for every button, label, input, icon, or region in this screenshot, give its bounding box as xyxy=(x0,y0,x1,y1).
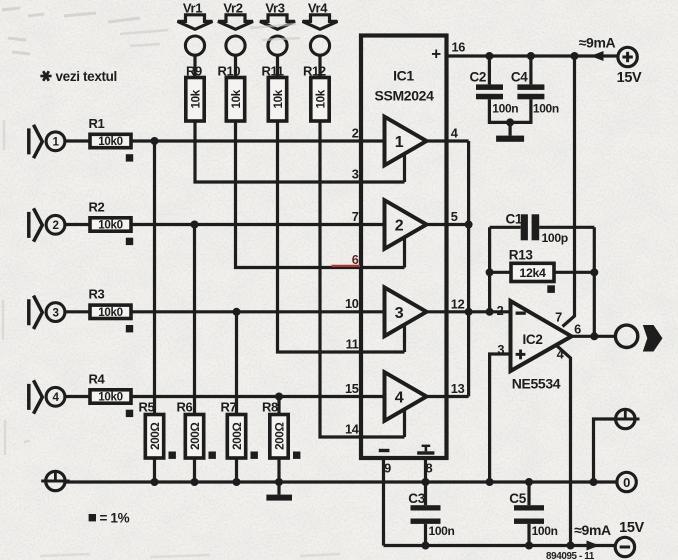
wire R6 to ground bus xyxy=(193,458,196,482)
svg-text:C3: C3 xyxy=(408,491,425,506)
wire Vr1 to R9 xyxy=(193,55,196,77)
input arrow 4 xyxy=(29,380,43,413)
svg-text:100n: 100n xyxy=(492,101,518,115)
wire input 3 to R3 xyxy=(65,310,90,313)
resistor R11 xyxy=(268,78,286,122)
wire R13 right xyxy=(554,271,594,274)
wire node1 to R5 xyxy=(153,141,156,415)
IC1 amp 1 control stub xyxy=(403,154,406,183)
resistor R13 xyxy=(511,263,554,281)
svg-text:7: 7 xyxy=(555,310,562,325)
wire node3 to R7 xyxy=(235,312,238,415)
resistor R9 xyxy=(186,78,204,122)
junction C2 rail xyxy=(485,52,493,60)
wire C1 left xyxy=(490,226,521,229)
svg-text:3: 3 xyxy=(52,306,59,319)
1% mark R5 xyxy=(169,452,176,459)
wire to ground C2C4 xyxy=(509,122,512,135)
1% mark R8 xyxy=(293,452,300,459)
wire C1 right xyxy=(539,226,594,229)
svg-text:SSM2024: SSM2024 xyxy=(374,87,434,103)
junction R5 ground xyxy=(151,478,159,486)
svg-text:100n: 100n xyxy=(532,524,558,538)
wire R5 to ground bus xyxy=(153,458,156,482)
svg-text:R3: R3 xyxy=(89,287,105,302)
svg-text:C5: C5 xyxy=(509,491,526,506)
wire Vr2 to R10 xyxy=(234,55,237,77)
svg-text:15: 15 xyxy=(345,381,359,396)
svg-text:Vr4: Vr4 xyxy=(308,0,328,15)
ground symbol C2C4 xyxy=(496,136,524,142)
junction R8 ground stub xyxy=(277,482,280,495)
junction IC2 supply rail xyxy=(571,52,579,60)
svg-text:1: 1 xyxy=(52,136,59,149)
svg-text:15V: 15V xyxy=(617,70,642,86)
IC1 internal minus xyxy=(379,449,390,452)
wire C3 bottom xyxy=(424,524,427,546)
positive supply terminal xyxy=(618,47,637,66)
wire C3 top xyxy=(424,482,427,505)
capacitor C1 xyxy=(521,214,539,240)
svg-text:C1: C1 xyxy=(506,211,523,226)
wire IC2 output xyxy=(572,335,616,338)
svg-text:Vr2: Vr2 xyxy=(223,0,242,15)
svg-text:2: 2 xyxy=(352,125,359,140)
svg-text:R1: R1 xyxy=(89,116,105,131)
svg-text:vezi textul: vezi textul xyxy=(56,69,117,84)
svg-text:10k0: 10k0 xyxy=(98,219,122,232)
1% mark R6 xyxy=(209,452,216,459)
svg-text:12: 12 xyxy=(451,296,465,311)
svg-text:13: 13 xyxy=(451,381,465,396)
svg-text:16: 16 xyxy=(452,40,466,55)
junction feedback pin2 xyxy=(486,308,494,316)
resistor R1 xyxy=(90,134,131,147)
junction R7 ground xyxy=(233,478,241,486)
svg-text:1: 1 xyxy=(395,134,404,151)
wire bus to IC2 pin2 xyxy=(469,310,511,313)
wire R11 to pin11 xyxy=(278,121,405,352)
svg-text:R13: R13 xyxy=(509,248,534,263)
junction input 2 xyxy=(191,221,199,229)
svg-text:≈9mA: ≈9mA xyxy=(579,35,616,51)
1% mark R3 xyxy=(126,325,133,332)
svg-text:4: 4 xyxy=(395,390,404,407)
svg-text:5: 5 xyxy=(451,209,458,224)
wire ground bus xyxy=(65,480,617,483)
wire IC2 pin4 negative xyxy=(557,346,571,546)
svg-text:R7: R7 xyxy=(221,400,237,415)
wire pin8 to ground bus xyxy=(424,458,427,482)
svg-text:100n: 100n xyxy=(429,524,455,538)
1% mark R13 xyxy=(547,285,555,293)
svg-text:2: 2 xyxy=(52,219,58,232)
smudge bottom xyxy=(40,554,340,557)
svg-text:10k: 10k xyxy=(190,89,203,108)
svg-text:Vr1: Vr1 xyxy=(183,0,202,15)
svg-text:10k: 10k xyxy=(272,89,285,108)
input terminal 2 xyxy=(46,215,65,234)
svg-text:14: 14 xyxy=(345,421,360,436)
resistor R7 xyxy=(227,415,245,459)
svg-text:200Ω: 200Ω xyxy=(274,423,287,450)
1% mark R4 xyxy=(126,410,133,417)
svg-text:894095 - 11: 894095 - 11 xyxy=(546,551,595,560)
resistor R4 xyxy=(90,390,131,403)
IC1 internal ground symbol xyxy=(417,445,434,455)
input arrow 1 xyxy=(29,125,43,158)
junction IC2 pin4 rail xyxy=(567,542,575,550)
ground symbol R8 xyxy=(266,495,292,501)
svg-text:100p: 100p xyxy=(542,231,568,245)
svg-text:11: 11 xyxy=(346,336,359,351)
wire R1 to IC1 xyxy=(131,139,385,142)
resistor R5 xyxy=(145,415,163,459)
IC2 plus input mark xyxy=(516,350,526,360)
minus sign supply xyxy=(620,546,630,549)
wire R10 to pin6 xyxy=(236,121,405,268)
wire feedback right riser xyxy=(593,227,596,336)
junction C2C4 ground xyxy=(506,118,514,126)
svg-text:Vr3: Vr3 xyxy=(265,0,284,15)
junction pin12 bus xyxy=(465,308,473,316)
svg-text:10k0: 10k0 xyxy=(98,306,122,319)
wire input 4 to R4 xyxy=(65,395,90,398)
svg-text:6: 6 xyxy=(574,322,581,337)
svg-text:IC1: IC1 xyxy=(393,67,414,83)
junction chassis bus xyxy=(590,478,598,486)
capacitor C5 xyxy=(514,505,544,524)
wire R7 to ground bus xyxy=(235,458,238,482)
resistor R2 xyxy=(90,218,131,231)
input terminal 3 xyxy=(46,303,65,322)
control arrow Vr4 xyxy=(303,15,338,29)
wire R2 to IC1 xyxy=(131,223,385,226)
control arrow Vr1 xyxy=(178,15,213,29)
junction pin8 ground xyxy=(422,478,430,486)
IC1 amp 2 control stub xyxy=(403,237,406,268)
1% mark R2 xyxy=(126,238,133,245)
IC1 amp 3 output wire xyxy=(427,310,469,313)
svg-text:7: 7 xyxy=(352,209,359,224)
IC1 amp 4 control stub xyxy=(403,409,406,437)
svg-text:200Ω: 200Ω xyxy=(189,423,202,450)
IC1 amp 2 output wire xyxy=(427,223,469,226)
plus sign supply xyxy=(622,52,632,62)
smudge left edge xyxy=(3,120,30,455)
IC1 amp 1 xyxy=(385,117,427,166)
wire R12 to pin14 xyxy=(320,121,405,437)
wire input 2 to R2 xyxy=(65,223,90,226)
smudge top mid xyxy=(120,24,300,46)
svg-text:R5: R5 xyxy=(139,400,155,415)
svg-text:200Ω: 200Ω xyxy=(231,423,244,450)
resistor R3 xyxy=(90,305,131,318)
wire C2 C4 join xyxy=(489,99,531,122)
junction R13 right xyxy=(590,268,598,276)
input terminal 4 xyxy=(46,387,65,406)
junction R6 ground xyxy=(191,478,199,486)
wire IC2 pin7 supply xyxy=(563,56,575,327)
junction pin5 bus xyxy=(465,221,473,229)
svg-text:R2: R2 xyxy=(89,199,105,214)
junction input 1 xyxy=(151,137,159,145)
svg-text:2: 2 xyxy=(497,303,504,318)
IC1 box xyxy=(361,36,447,459)
IC1 amp 3 xyxy=(385,288,427,337)
IC1 amp 3 control stub xyxy=(403,324,406,352)
resistor R12 xyxy=(311,78,329,122)
IC1 amp 2 xyxy=(385,200,427,249)
wire node2 to R6 xyxy=(193,225,196,415)
svg-text:C4: C4 xyxy=(511,70,528,85)
IC2 minus input mark xyxy=(516,312,526,315)
output terminal circle xyxy=(615,325,637,347)
wire R3 to IC1 xyxy=(131,310,385,313)
svg-text:10k: 10k xyxy=(315,89,328,108)
wire output bus xyxy=(467,141,470,397)
svg-text:R8: R8 xyxy=(262,400,278,415)
wire R13 left xyxy=(490,271,511,274)
svg-text:10k: 10k xyxy=(230,89,243,108)
svg-text:≈9mA: ≈9mA xyxy=(574,522,611,538)
svg-text:NE5534: NE5534 xyxy=(512,376,561,392)
zero volt terminal xyxy=(617,472,636,491)
svg-text:R6: R6 xyxy=(177,400,193,415)
svg-text:100n: 100n xyxy=(533,101,559,115)
wire feedback left riser xyxy=(488,227,491,311)
legend 1% square xyxy=(89,514,96,521)
op-amp IC2 xyxy=(511,301,572,371)
junction pin3 ground xyxy=(486,478,494,486)
input arrow 3 xyxy=(29,296,43,329)
terminal circle Vr1 xyxy=(185,36,204,55)
IC1 amp 4 xyxy=(385,372,427,421)
svg-text:+: + xyxy=(431,45,441,64)
junction C5 rail xyxy=(525,542,533,550)
current arrow bottom xyxy=(587,541,600,551)
capacitor C2 xyxy=(476,84,503,99)
control arrow Vr2 xyxy=(218,15,253,29)
svg-text:4: 4 xyxy=(52,391,59,404)
svg-text:10k0: 10k0 xyxy=(98,391,122,404)
wire C4 riser xyxy=(529,56,532,84)
svg-text:C2: C2 xyxy=(470,70,487,85)
negative supply terminal xyxy=(615,537,634,556)
terminal circle Vr2 xyxy=(226,36,245,55)
wire positive rail xyxy=(447,54,618,57)
terminal circle Vr4 xyxy=(310,36,329,55)
resistor R8 xyxy=(270,415,288,459)
wire C5 bottom xyxy=(527,524,530,546)
svg-text:6: 6 xyxy=(352,252,359,267)
wire R9 to pin3 xyxy=(195,121,405,182)
ground input terminal xyxy=(41,471,69,490)
junction R13 left xyxy=(486,268,494,276)
wire pin3 to IC2 xyxy=(490,354,511,482)
svg-text:3: 3 xyxy=(352,166,359,181)
current arrow top xyxy=(591,51,604,61)
svg-text:IC2: IC2 xyxy=(523,332,543,347)
red underline pin 6 xyxy=(332,265,361,267)
wire R4 to IC1 xyxy=(131,395,385,398)
resistor R10 xyxy=(226,78,244,122)
junction C5 bus xyxy=(525,478,533,486)
1% mark R7 xyxy=(251,452,258,459)
junction input 3 xyxy=(233,308,241,316)
junction input 4 xyxy=(275,393,283,401)
wire input 1 to R1 xyxy=(65,139,90,142)
wire C2 riser xyxy=(488,56,491,84)
svg-text:200Ω: 200Ω xyxy=(149,423,162,450)
wire Vr3 to R11 xyxy=(276,55,279,77)
wire R8 to ground bus xyxy=(277,458,280,482)
svg-text:15V: 15V xyxy=(619,520,644,536)
output arrow xyxy=(643,325,663,352)
IC1 amp 1 output wire xyxy=(427,139,469,142)
svg-text:9: 9 xyxy=(384,461,391,476)
svg-text:R4: R4 xyxy=(89,371,106,386)
wire C5 top xyxy=(527,482,530,505)
terminal circle Vr3 xyxy=(268,36,287,55)
junction C4 rail xyxy=(527,52,535,60)
junction output feedback xyxy=(590,332,598,340)
svg-text:3: 3 xyxy=(395,305,404,322)
wire chassis terminal xyxy=(594,419,616,482)
svg-text:12k4: 12k4 xyxy=(519,266,546,280)
svg-text:10: 10 xyxy=(345,296,359,311)
wire Vr4 to R12 xyxy=(318,55,321,77)
input arrow 2 xyxy=(29,208,43,241)
smudge top left xyxy=(2,8,140,54)
chassis terminal xyxy=(611,409,639,428)
resistor R6 xyxy=(185,415,203,459)
1% mark R1 xyxy=(126,154,133,161)
wire pin9 to negative rail xyxy=(382,458,385,546)
svg-text:= 1%: = 1% xyxy=(100,511,130,526)
svg-text:0: 0 xyxy=(623,475,630,490)
svg-text:10k0: 10k0 xyxy=(98,135,122,148)
wire node4 to R8 xyxy=(277,397,280,415)
junction R8 ground xyxy=(275,478,283,486)
control arrow Vr3 xyxy=(260,15,295,29)
capacitor C3 xyxy=(411,505,441,524)
capacitor C4 xyxy=(517,84,544,99)
junction C3 rail xyxy=(422,542,430,550)
wire negative rail xyxy=(384,544,615,547)
IC1 amp 4 output wire xyxy=(427,395,469,398)
input terminal 1 xyxy=(46,132,65,151)
note asterisk xyxy=(40,71,51,81)
svg-text:2: 2 xyxy=(395,218,404,235)
svg-text:3: 3 xyxy=(497,342,504,357)
